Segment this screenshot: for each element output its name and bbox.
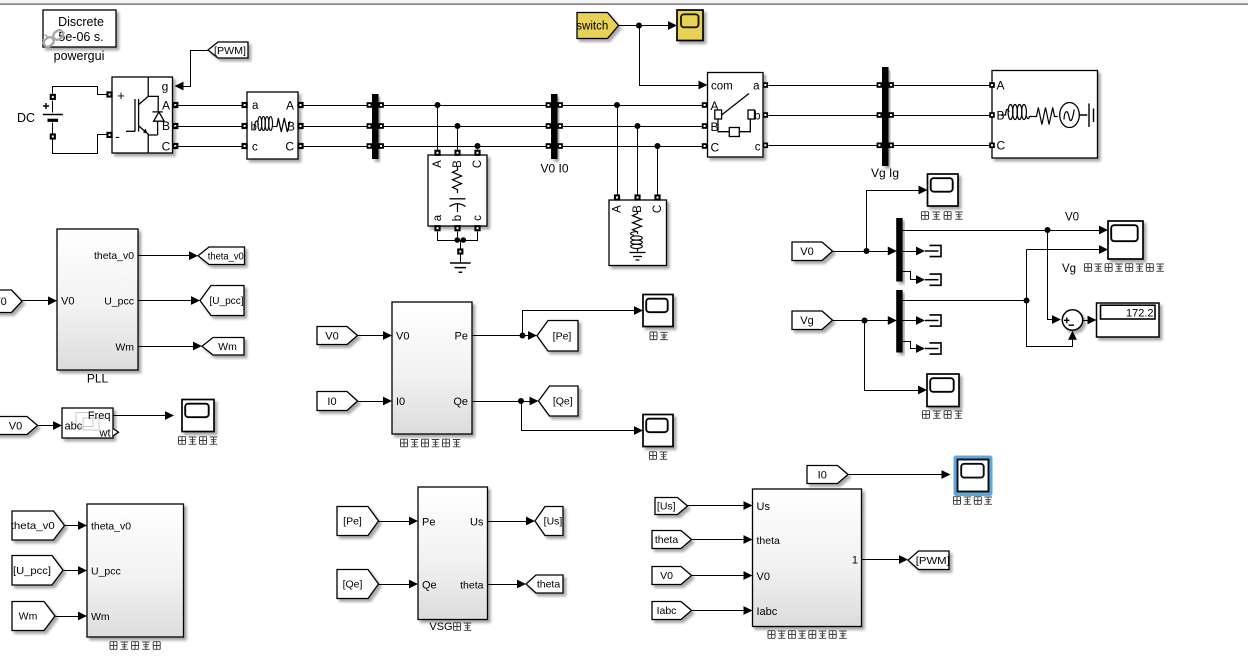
- wire DC+ to inverter +: [53, 87, 107, 95]
- wire Pe out: [473, 335, 531, 337]
- Goto tag [PWM]: [908, 551, 950, 570]
- sum block (+-): [1062, 310, 1082, 330]
- ground port: [457, 248, 463, 254]
- wire bus bar 3 to grid source phase A: [894, 85, 990, 87]
- svg-text:DC: DC: [17, 111, 35, 125]
- svg-text:U_pcc: U_pcc: [91, 566, 121, 578]
- breaker b port: [763, 112, 769, 118]
- wire I0 to power calc: [358, 401, 386, 403]
- bus bar 1 port pair y=105: [367, 102, 373, 108]
- svg-text:I0: I0: [396, 396, 405, 408]
- wire PLL Wm out: [139, 346, 196, 348]
- wire Us out: [488, 521, 529, 523]
- svg-text:[Us]: [Us]: [657, 501, 676, 513]
- svg-text:abc: abc: [65, 421, 83, 433]
- window top strip: [0, 0, 1248, 3]
- label 无功: [650, 452, 657, 460]
- svg-text:C: C: [711, 141, 720, 155]
- wire I0 to output current scope: [849, 474, 945, 476]
- wire V0 to bus selector 1 and up to scope: [833, 251, 892, 253]
- wire inverter C to filter c: [176, 146, 244, 148]
- From tag theta_v0: [11, 511, 65, 540]
- wire Us to inner loop: [688, 505, 747, 507]
- svg-text:[Qe]: [Qe]: [343, 579, 363, 591]
- svg-text:A: A: [612, 205, 624, 213]
- From tag Iabc: [652, 602, 692, 620]
- RC load top ports: [434, 150, 440, 156]
- label 有功: [650, 332, 657, 340]
- svg-text:theta: theta: [537, 579, 561, 591]
- scope output current 输出电流: [958, 460, 989, 492]
- From tag [Us]: [655, 498, 688, 515]
- LC filter a port: [242, 102, 248, 108]
- svg-text:Vg: Vg: [1062, 263, 1076, 275]
- bus selector 2 output 2 to terminator: [903, 320, 917, 322]
- LC filter resistor zigzag: [277, 118, 290, 132]
- grid source resistor: [1034, 108, 1058, 125]
- grid source A port: [989, 82, 995, 88]
- svg-text:Qe: Qe: [453, 396, 468, 408]
- LC filter b port: [242, 123, 248, 129]
- wire filter C to bus bar 1: [302, 146, 367, 148]
- inverter C port: [172, 143, 178, 149]
- svg-text:theta_v0: theta_v0: [94, 250, 134, 262]
- svg-text:+: +: [117, 88, 125, 103]
- wire theta_v0 to presync: [65, 525, 81, 527]
- Goto tag [Pe]: [537, 321, 578, 352]
- From tag [Qe]: [337, 570, 379, 599]
- pre-synchronization control subsystem: [87, 504, 184, 637]
- bus bar 2 port pair y=126: [546, 123, 552, 129]
- wire V0 to inner loop: [692, 575, 747, 577]
- svg-text:5e-06 s.: 5e-06 s.: [58, 30, 103, 44]
- svg-text:V0: V0: [396, 331, 409, 343]
- breaker B port: [702, 123, 708, 129]
- svg-text:a: a: [252, 100, 259, 112]
- LC filter B port: [297, 123, 303, 129]
- wire bus bar 2 to breaker phase C: [563, 146, 704, 148]
- RL load resistor (vertical): [633, 212, 642, 234]
- DC source bottom port: [50, 133, 56, 139]
- wire filter B to bus bar 1: [302, 126, 367, 128]
- selection highlight (blue) on output current scope: [954, 456, 993, 497]
- svg-text:V0: V0: [757, 571, 770, 583]
- svg-text:Iabc: Iabc: [757, 606, 778, 618]
- RL load top ports: [614, 194, 620, 200]
- three-phase VI measurement bus bar 3 (Vg Ig): [882, 67, 889, 166]
- LC filter inductor coil: [254, 117, 277, 131]
- wire breaker c to bus bar 3: [769, 145, 880, 147]
- DC source battery symbol: [52, 101, 54, 113]
- DC source top port: [50, 94, 56, 100]
- svg-text:C: C: [652, 205, 664, 213]
- wire inner loop out to PWM goto: [862, 559, 902, 561]
- From tag [PWM] to gate: [208, 42, 248, 58]
- breaker C port: [702, 143, 708, 149]
- svg-text:Pe: Pe: [422, 517, 435, 529]
- svg-text:Us: Us: [470, 517, 484, 529]
- LC filter C port: [297, 143, 303, 149]
- Goto tag theta: [526, 575, 563, 593]
- wire sum to display: [1083, 320, 1091, 322]
- label 输出电压: [922, 212, 929, 220]
- wire inverter B to filter b: [176, 126, 244, 128]
- svg-text:V0: V0: [9, 420, 22, 432]
- svg-text:c: c: [755, 142, 761, 154]
- voltage-current inner loop control subsystem: [753, 489, 862, 627]
- svg-text:V0 I0: V0 I0: [540, 162, 568, 176]
- Goto tag Wm: [202, 338, 244, 356]
- From tag switch (yellow): [576, 13, 618, 39]
- wire Vg to bus selector 2 and down to scope: [833, 320, 892, 322]
- svg-text:V0: V0: [1065, 212, 1079, 224]
- svg-text:C: C: [472, 160, 484, 168]
- RL load block: [609, 200, 667, 266]
- ground symbol: [460, 255, 462, 263]
- bus bar 2 port pair y=146: [546, 143, 552, 149]
- svg-text:[Us]: [Us]: [544, 516, 563, 528]
- node phase C to RL load: [655, 143, 661, 149]
- svg-text:c: c: [472, 215, 484, 221]
- bus bar 3 port pair y=145.3: [877, 143, 883, 149]
- PLL subsystem block: [57, 229, 138, 370]
- From tag I0 (power calc): [317, 392, 358, 411]
- node phase A to RL load: [614, 102, 620, 108]
- svg-text:I0: I0: [818, 469, 827, 481]
- wire Pe to VSG: [379, 521, 412, 523]
- LC filter c port: [242, 143, 248, 149]
- svg-text:b: b: [452, 215, 464, 221]
- three-phase breaker block: [708, 73, 764, 158]
- svg-text:-: -: [115, 128, 120, 144]
- wire PLL U_pcc out: [139, 300, 194, 302]
- svg-text:theta_v0: theta_v0: [91, 521, 131, 533]
- svg-text:switch: switch: [576, 21, 608, 33]
- Goto tag [U_pcc]: [200, 286, 244, 316]
- VSG control subsystem: [418, 487, 488, 620]
- scope switch state (yellow): [677, 10, 703, 41]
- svg-text:Vg: Vg: [800, 315, 813, 327]
- svg-text:A: A: [162, 99, 170, 113]
- bus bar 1 port pair y=126: [367, 123, 373, 129]
- svg-text:A: A: [432, 160, 444, 168]
- svg-text:Wm: Wm: [115, 342, 134, 354]
- grid voltage source block: [992, 71, 1098, 159]
- bus bar 3 port pair y=115: [877, 112, 883, 118]
- svg-text:Vg Ig: Vg Ig: [871, 166, 899, 180]
- From tag V0 (bus selector): [792, 242, 833, 261]
- label 输出频率: [179, 437, 186, 445]
- RC load block: [428, 155, 487, 226]
- svg-text:c: c: [252, 142, 258, 154]
- From tag I0 (output current): [807, 466, 848, 484]
- LC filter A port: [297, 102, 303, 108]
- wire breaker a to bus bar 3: [769, 85, 880, 87]
- breaker c port: [763, 143, 769, 149]
- wire bus bar 2 to breaker phase A: [563, 105, 704, 107]
- wire bus bar 3 to grid source phase C: [894, 145, 990, 147]
- wire filter A to bus bar 1: [302, 105, 367, 107]
- inverter IGBT bridge block: [112, 77, 173, 153]
- wire V0 to Freq block: [38, 425, 56, 427]
- svg-text:Wm: Wm: [19, 611, 38, 623]
- wire V0 into compare scope input 1: [1101, 230, 1103, 232]
- bus selector 2: [896, 290, 902, 353]
- scope reactive power 无功: [643, 415, 673, 447]
- svg-text:V0: V0: [660, 570, 673, 582]
- powergui broken-link icon: [42, 29, 65, 49]
- wire DC- to inverter -: [53, 135, 107, 154]
- bus bar 1 port pair y=146: [367, 143, 373, 149]
- svg-text:Freq: Freq: [88, 410, 111, 422]
- svg-text:[Pe]: [Pe]: [343, 516, 362, 528]
- From tag V0 into PLL (clipped at left edge): [0, 290, 22, 313]
- wire Iabc to inner loop: [692, 610, 747, 612]
- RC load capacitor (vertical): [450, 198, 466, 200]
- wire bus bar 2 to breaker phase B: [563, 126, 704, 128]
- grid source inductor coil: [1002, 105, 1034, 120]
- bus bar 2 port pair y=105: [546, 102, 552, 108]
- label 电网电压: [923, 411, 930, 419]
- svg-text:Qe: Qe: [422, 580, 437, 592]
- bus selector 2 output 1 wire (Vg phase a): [903, 300, 1027, 302]
- breaker switch icon: [715, 94, 755, 137]
- svg-text:theta: theta: [460, 580, 484, 592]
- svg-text:C: C: [285, 140, 294, 154]
- svg-text:theta: theta: [655, 534, 679, 546]
- bus selector 2 output 3 to terminator: [903, 342, 917, 349]
- wire V0 to power calc: [358, 335, 386, 337]
- svg-text:g: g: [162, 80, 169, 94]
- node Vg branch junction: [1024, 298, 1030, 304]
- From tag V0 (power calc): [317, 327, 358, 345]
- scope active power 有功: [643, 295, 673, 327]
- breaker A port: [702, 102, 708, 108]
- svg-text:Wm: Wm: [91, 611, 110, 623]
- scope compare V0/Vg 观察并网电压波形: [1108, 221, 1143, 259]
- node phase A to RC load: [435, 102, 441, 108]
- From tag V0 (inner loop): [652, 567, 692, 585]
- frequency measurement block: [62, 408, 113, 438]
- node phase B to RL load: [635, 123, 641, 129]
- RC load neutral wires: [438, 232, 478, 241]
- inverter + port: [106, 91, 112, 97]
- svg-text:V0: V0: [0, 296, 7, 308]
- svg-text:V0: V0: [325, 330, 338, 342]
- breaker a port: [763, 82, 769, 88]
- three-phase VI measurement bus bar 2 (V0 I0): [551, 94, 558, 159]
- From tag theta: [652, 531, 692, 549]
- RC load bottom ports: [434, 225, 440, 231]
- node phase C to RC load: [475, 143, 481, 149]
- svg-text:a: a: [432, 214, 444, 221]
- From tag [U_pcc]: [12, 556, 63, 586]
- three-phase measurement bus bar 1: [372, 94, 379, 159]
- bus selector 1 output 2 to terminator: [903, 251, 917, 253]
- wire U_pcc to presync: [64, 570, 81, 572]
- From tag Vg (bus selector): [792, 311, 833, 330]
- wire Qe to VSG: [379, 584, 412, 586]
- bus selector 1 output 1 wire (V0 phase a): [903, 230, 1102, 232]
- svg-text:Wm: Wm: [218, 341, 237, 353]
- svg-text:C: C: [162, 140, 171, 154]
- svg-text:V0: V0: [61, 296, 74, 308]
- wire bus bar 1 to bus bar 2 phase A: [384, 105, 549, 107]
- powergui block: [43, 10, 116, 47]
- svg-text:1: 1: [852, 555, 858, 567]
- svg-text:wt: wt: [99, 428, 111, 440]
- LC filter block: [247, 92, 298, 159]
- inverter - port: [106, 132, 112, 138]
- svg-text:a: a: [753, 81, 760, 93]
- wire breaker b to bus bar 3: [769, 115, 880, 117]
- svg-text:Discrete: Discrete: [58, 15, 104, 29]
- svg-text:PLL: PLL: [87, 372, 109, 386]
- svg-text:[U_pcc]: [U_pcc]: [210, 295, 244, 307]
- svg-text:VSG: VSG: [429, 621, 452, 633]
- svg-text:powergui: powergui: [54, 49, 105, 63]
- svg-text:[Pe]: [Pe]: [553, 330, 572, 342]
- wire Freq to scope: [114, 415, 168, 417]
- Goto tag [Us]: [535, 507, 563, 536]
- inverter IGBT symbol: [126, 78, 164, 154]
- svg-text:com: com: [711, 81, 733, 93]
- inverter B port: [172, 123, 178, 129]
- label 电压电流内环控制: [768, 631, 775, 639]
- wire PLL theta_v0 out: [139, 255, 192, 257]
- svg-text:V0: V0: [800, 246, 813, 258]
- wire bus bar 1 to bus bar 2 phase B: [384, 126, 549, 128]
- label 观察并网电压波形: [1085, 264, 1092, 272]
- svg-text:Pe: Pe: [455, 331, 468, 343]
- wire Qe out: [473, 401, 533, 403]
- grid source B port: [989, 112, 995, 118]
- svg-text:theta_v0: theta_v0: [208, 251, 244, 262]
- From tag Wm: [12, 602, 55, 631]
- svg-text:U_pcc: U_pcc: [104, 296, 134, 308]
- power calculation subsystem: [392, 302, 472, 434]
- wire Qe to reactive power scope: [522, 402, 637, 431]
- From tag V0 into Freq block (clipped): [0, 417, 38, 435]
- wire PWM to inverter g: [181, 51, 209, 87]
- bus bar 3 port pair y=85: [877, 82, 883, 88]
- svg-text:B: B: [452, 160, 464, 168]
- svg-text:theta_v0: theta_v0: [11, 520, 55, 532]
- grid source C port: [989, 143, 995, 149]
- wire switch to scope and breaker com: [619, 25, 671, 27]
- svg-text:B: B: [711, 120, 719, 134]
- wire inverter A to filter a: [176, 105, 244, 107]
- node V0 branch to scope and sum: [1045, 227, 1051, 233]
- bus selector 1: [896, 218, 902, 282]
- wire Pe to active power scope: [523, 311, 637, 336]
- node phase B to RC load: [455, 123, 461, 129]
- svg-text:I0: I0: [327, 396, 336, 408]
- wire theta to inner loop: [692, 539, 747, 541]
- bus selector 1 output 3 to terminator: [903, 272, 917, 280]
- wire Wm to presync: [56, 616, 81, 618]
- label 输出电流: [954, 497, 961, 505]
- svg-text:C: C: [997, 139, 1006, 153]
- svg-text:172.2: 172.2: [1126, 308, 1154, 320]
- RL load inductor coil (vertical): [631, 232, 643, 249]
- svg-text:Us: Us: [757, 501, 771, 513]
- grid source AC symbol: [1060, 103, 1080, 128]
- wire bus bar 1 to bus bar 2 phase C: [384, 146, 549, 148]
- Freq wt unconnected output chevron: [113, 429, 119, 436]
- svg-text:A: A: [286, 99, 294, 113]
- Goto tag theta_v0: [198, 247, 245, 265]
- label 功率计算模块: [401, 439, 408, 447]
- svg-text:Iabc: Iabc: [657, 605, 677, 617]
- svg-text:[Qe]: [Qe]: [553, 396, 573, 408]
- svg-text:[PWM]: [PWM]: [214, 45, 246, 57]
- From tag [Pe]: [337, 507, 379, 536]
- wire V0 to PLL: [23, 300, 51, 302]
- svg-text:A: A: [997, 79, 1005, 93]
- scope output voltage 输出电压: [928, 174, 959, 206]
- svg-text:theta: theta: [757, 535, 781, 547]
- label 预同步控制: [110, 642, 117, 650]
- Goto tag [Qe]: [539, 386, 579, 416]
- inverter A port: [172, 102, 178, 108]
- RC load resistor (vertical): [453, 167, 462, 193]
- wire theta out: [488, 584, 520, 586]
- wire bus bar 3 to grid source phase B: [894, 115, 990, 117]
- display block 172.2: [1097, 303, 1160, 337]
- svg-text:[PWM]: [PWM]: [916, 555, 950, 567]
- scope output frequency: [182, 400, 214, 432]
- svg-text:[U_pcc]: [U_pcc]: [13, 565, 51, 577]
- scope grid voltage 电网电压: [927, 374, 959, 407]
